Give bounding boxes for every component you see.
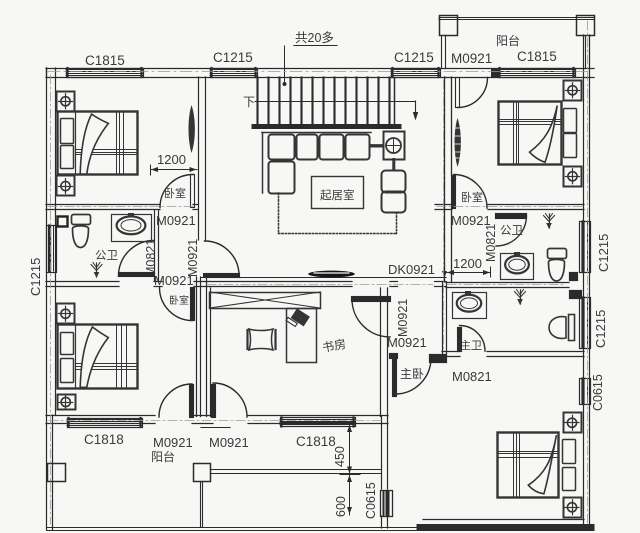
door M0821 bath-left (119, 273, 155, 277)
beam line DK0921 (201, 277, 446, 279)
door M0921 bedroom2-balcony (190, 385, 194, 418)
wall jamb masterbed door (390, 354, 398, 359)
nightstand bedroom1 top (57, 92, 75, 112)
wall exterior left upper (46, 68, 48, 282)
svg-text:M0921: M0921 (451, 51, 492, 66)
door M0921 bedroom1 (191, 175, 195, 208)
window C1215 left wall (47, 226, 57, 273)
wall corridor left (bath right) (154, 210, 156, 282)
balcony side rail right (585, 36, 587, 68)
stairs bottom edge (thick) (254, 124, 399, 129)
chair study (249, 329, 273, 350)
stairs right stringer (394, 78, 396, 125)
door M0921 corridor-to-hall (204, 274, 240, 278)
svg-text:M0921: M0921 (156, 213, 196, 228)
window C1215 right wall lower (580, 298, 591, 349)
wall cap top-right (492, 69, 499, 77)
svg-text:M0821: M0821 (484, 224, 498, 262)
window C1815 top-right (499, 69, 576, 78)
wall exterior left lower (46, 282, 48, 416)
centerline mid band right (447, 284, 566, 286)
floor drain masterbath (520, 290, 522, 304)
door M0921 bedroom-tr balcony (456, 78, 460, 108)
sink bath-left (112, 215, 152, 242)
side table with lamp (384, 132, 405, 160)
svg-text:1200: 1200 (157, 152, 186, 167)
svg-text:C0615: C0615 (591, 374, 605, 411)
nightstand bedroom2 bottom (58, 395, 76, 410)
nightstand bedroom-tr top (564, 81, 582, 101)
toilet bath-right (548, 249, 567, 259)
desk study (287, 309, 317, 363)
svg-text:C1215: C1215 (596, 234, 611, 272)
door M0921 bedroom-tr lower (452, 176, 456, 209)
wall exterior left balcony (46, 415, 48, 530)
wall central vertical lower (196, 277, 198, 417)
balcony post mid (194, 464, 211, 482)
centerline bottom wall (49, 420, 384, 422)
window C1818 left (68, 419, 143, 428)
wall stairwell right upper (444, 77, 446, 282)
wall bedroom-tr bottom (435, 204, 452, 206)
door M0921 bedroom2 (191, 288, 195, 321)
rug dotted edge (278, 193, 280, 234)
centerline left wall (50, 75, 52, 524)
svg-text:公卫: 公卫 (95, 249, 118, 262)
svg-text:M0921: M0921 (186, 239, 200, 277)
mirror bedroom-tr left wall (455, 118, 461, 167)
window C1818 right (281, 418, 356, 427)
leader line for stairs label (284, 46, 286, 82)
balcony divider line (200, 482, 202, 528)
centerline stairwell wall (443, 80, 445, 350)
svg-text:卧室: 卧室 (169, 294, 189, 307)
svg-text:C0615: C0615 (364, 482, 378, 519)
svg-text:M0821: M0821 (144, 239, 158, 277)
svg-text:M0921: M0921 (153, 435, 193, 450)
wall hall/masterbath left (442, 282, 444, 354)
mirror bedroom1 right wall (189, 105, 195, 153)
wall exterior top (left section) (46, 68, 446, 70)
balcony post left (48, 464, 66, 482)
centerline mid band (207, 284, 433, 286)
wall balcony divider vertical (381, 417, 383, 490)
toilet masterbath (569, 315, 575, 341)
counter ellipse deco (308, 271, 355, 278)
wardrobe study (210, 293, 321, 309)
svg-text:共20多: 共20多 (295, 31, 334, 45)
sofa L-shaped (262, 132, 371, 134)
door M0921 study (352, 297, 391, 302)
sink bath-right (501, 254, 534, 280)
balcony top rail (439, 17, 594, 19)
centerline bedroomtr bottom (437, 206, 582, 208)
floor drain bath-left (96, 263, 98, 277)
wall band mid (bath/bed2 + study top) (46, 281, 119, 283)
svg-text:公卫: 公卫 (500, 224, 523, 237)
wall masterbath bottom (442, 351, 460, 353)
door M0921 study-balcony (212, 385, 216, 418)
nightstand bedroom1 bottom (57, 176, 75, 196)
window C1215 right wall upper (580, 222, 591, 273)
wall bedroom1 right / central vertical (198, 77, 200, 240)
centerline right wall (587, 21, 589, 524)
toilet bath-left (72, 215, 91, 225)
svg-text:C1818: C1818 (296, 434, 336, 449)
sink masterbath (453, 293, 487, 319)
wall balcony divider below window (381, 516, 383, 528)
balcony side rail left (441, 36, 443, 68)
floor drain bath-right (549, 214, 551, 228)
laptop study (286, 307, 310, 330)
bed bedroom2 (58, 325, 138, 389)
svg-text:C1215: C1215 (394, 50, 434, 65)
stair direction line 下 (255, 101, 416, 103)
pouf 1 (382, 171, 406, 193)
balcony bottom rail (47, 527, 422, 529)
svg-text:主卫: 主卫 (460, 339, 482, 352)
svg-text:M0921: M0921 (209, 435, 249, 450)
centerline top wall (48, 71, 592, 73)
tap bath-right (515, 253, 520, 256)
svg-text:阳台: 阳台 (496, 33, 520, 48)
svg-text:C1215: C1215 (213, 50, 253, 65)
svg-text:主卧: 主卧 (400, 367, 424, 381)
bed bedroom-tr (499, 102, 562, 165)
centerline bedroom1 bottom (48, 206, 196, 208)
nightstand bedroom-tr bottom (564, 167, 582, 187)
door M0921 bath-right (496, 214, 527, 219)
wall masterbed top block (430, 355, 447, 363)
svg-text:M0921: M0921 (396, 299, 410, 337)
svg-text:450: 450 (333, 446, 347, 467)
svg-text:C1215: C1215 (28, 258, 43, 296)
svg-text:C1818: C1818 (84, 432, 124, 447)
window C0615 balcony wall (381, 491, 393, 517)
tap bath-left (129, 214, 134, 217)
wall bed2/study bottom (46, 415, 155, 417)
wall bath-right bottom (446, 282, 569, 284)
wall masterbed bottom (thick) (420, 524, 591, 531)
svg-text:起居室: 起居室 (320, 188, 355, 202)
tap masterbath sink (466, 292, 471, 295)
door M0921 hall-to-masterbed (393, 359, 397, 397)
svg-text:M0921: M0921 (387, 335, 427, 350)
living room label box (312, 177, 364, 209)
nightstand master top (564, 413, 582, 433)
svg-text:阳台: 阳台 (151, 449, 175, 464)
svg-text:M0821: M0821 (452, 369, 492, 384)
stairs treads (256, 78, 258, 125)
balcony top post right (577, 16, 595, 36)
wall exterior right (583, 35, 585, 524)
balcony rail right (211, 469, 382, 471)
nightstand bedroom2 top (57, 304, 75, 324)
wall hall left / study right (380, 288, 382, 417)
bed bedroom1 (58, 112, 138, 175)
window C0615 right wall (580, 379, 591, 405)
window C1215 top-mid (211, 69, 258, 78)
svg-text:C1815: C1815 (85, 53, 125, 68)
wall exterior top (right bedroom section) (446, 68, 594, 70)
nightstand master bottom (564, 498, 582, 518)
connector table-pouf (392, 160, 395, 171)
bed master (498, 433, 559, 498)
svg-text:C1815: C1815 (517, 49, 557, 64)
svg-text:卧室: 卧室 (164, 186, 186, 200)
bin bath-left (58, 217, 68, 227)
wall jog block right-mid (570, 273, 578, 281)
wall bedroom1 bottom (46, 204, 160, 206)
svg-text:下: 下 (243, 95, 255, 109)
pouf 2 (382, 192, 406, 213)
balcony top post left (440, 16, 458, 36)
svg-text:600: 600 (334, 496, 348, 517)
door M0821 masterbath (458, 328, 462, 352)
wall cap below balcony doors (201, 427, 230, 429)
svg-text:卧室: 卧室 (461, 190, 483, 204)
window C1215 top-stairs (392, 69, 441, 78)
svg-text:1200: 1200 (453, 256, 482, 271)
svg-text:C1215: C1215 (593, 310, 608, 348)
connector sofa-table (371, 144, 383, 147)
svg-text:DK0921: DK0921 (388, 262, 435, 277)
window C1815 top-left (67, 69, 144, 78)
